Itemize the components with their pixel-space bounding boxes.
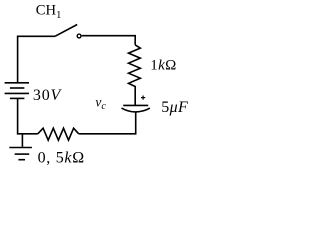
svg-text:vc: vc <box>95 94 106 112</box>
svg-text:5μF: 5μF <box>161 99 188 116</box>
svg-text:CH1: CH1 <box>36 3 62 21</box>
svg-text:0, 5kΩ: 0, 5kΩ <box>38 149 85 166</box>
svg-text:1kΩ: 1kΩ <box>150 57 177 73</box>
svg-text:30V: 30V <box>33 87 63 104</box>
